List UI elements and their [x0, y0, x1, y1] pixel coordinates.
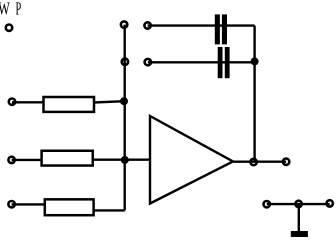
op-amp U1	[150, 116, 233, 204]
resistor R2	[42, 151, 93, 166]
node label W	[0, 2, 10, 14]
terminal W (top-left)	[6, 25, 12, 31]
resistor R1	[44, 97, 95, 112]
wire feedback vertical	[253, 26, 255, 163]
ground	[291, 231, 308, 237]
wire R1 input	[12, 101, 45, 103]
node label P	[16, 2, 21, 14]
wire R2 to op-amp input	[92, 158, 151, 160]
junction bus R1	[120, 97, 128, 105]
terminal bus mid	[122, 59, 128, 65]
terminal output node	[250, 159, 256, 165]
wire R3 input	[12, 203, 46, 205]
terminal output right	[283, 159, 289, 165]
terminal R3 input	[8, 201, 14, 207]
wire capacitor row 2	[148, 61, 255, 63]
junction bus R2	[121, 156, 129, 164]
wire R3 output to bus	[93, 209, 125, 211]
wire vertical bus left	[123, 25, 125, 211]
junction feedback node	[251, 57, 259, 65]
terminal bus top	[121, 21, 127, 27]
terminal cap row 2	[145, 59, 151, 65]
wire ground lead	[298, 204, 300, 231]
terminal bottom-right left	[264, 201, 270, 207]
terminal R1 input	[9, 99, 15, 105]
capacitor C1	[215, 14, 227, 44]
wire R1 to bus	[93, 101, 125, 102]
terminal bottom-right middle	[295, 201, 301, 207]
wire op-amp output	[233, 160, 286, 162]
wire bottom-right rail	[267, 203, 330, 205]
terminal R2 input	[8, 157, 14, 163]
terminal bottom-right right	[327, 200, 333, 206]
wire R2 input	[12, 159, 43, 161]
wire capacitor row 1	[148, 24, 255, 26]
capacitor C2	[218, 47, 230, 78]
resistor R3	[45, 199, 94, 215]
terminal cap row 1	[144, 22, 150, 28]
